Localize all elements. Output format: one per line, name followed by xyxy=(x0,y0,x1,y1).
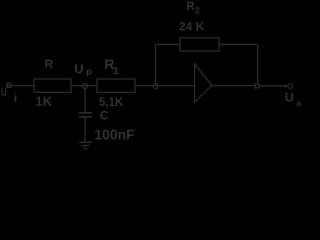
output terminal circle xyxy=(288,84,293,89)
label R xyxy=(45,60,53,68)
wire R1 to op-amp xyxy=(135,85,195,87)
label R2 xyxy=(187,2,194,10)
wire op-amp output xyxy=(212,85,255,87)
label U input xyxy=(1,88,6,96)
label U output xyxy=(286,93,294,102)
wire input to R xyxy=(11,85,34,87)
feedback wire down xyxy=(257,44,259,84)
resistor R1 xyxy=(97,79,135,92)
feedback wire top rail right xyxy=(219,43,258,45)
label C xyxy=(100,111,108,120)
wire capacitor to ground xyxy=(84,118,86,143)
label P subscript xyxy=(86,70,91,77)
output arrowhead xyxy=(285,84,288,87)
feedback wire top rail left xyxy=(156,43,181,45)
label 1K value xyxy=(36,97,52,106)
resistor R2 xyxy=(180,38,219,51)
output junction square xyxy=(255,84,259,88)
label 100nF value xyxy=(95,130,134,140)
wire R to node P xyxy=(71,85,97,87)
feedback junction circle xyxy=(153,84,158,89)
feedback wire up xyxy=(155,44,157,83)
op-amp U1 triangle xyxy=(195,64,212,102)
label 5,1K value xyxy=(99,97,123,108)
label 24 K value xyxy=(179,22,204,30)
terminal input square xyxy=(7,83,11,87)
label U of node P xyxy=(75,64,83,73)
wire node P down to capacitor xyxy=(84,89,86,113)
label i subscript input xyxy=(15,94,17,102)
ground xyxy=(79,141,92,143)
resistor R xyxy=(34,79,71,92)
label R1 xyxy=(105,60,114,70)
label 2 subscript of R2 xyxy=(195,7,199,13)
wire to output terminal xyxy=(259,85,285,87)
capacitor C plates xyxy=(79,112,92,114)
label a subscript output xyxy=(297,102,302,107)
label 1 subscript of R1 xyxy=(114,67,119,74)
node P junction circle xyxy=(83,84,88,89)
